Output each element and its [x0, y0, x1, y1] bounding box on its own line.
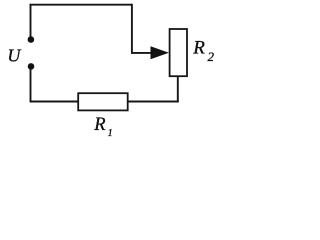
wire right vertical to R2 bottom [177, 76, 179, 102]
wire left vertical upper [30, 4, 32, 37]
wire bottom left horizontal [30, 101, 78, 103]
wire wiper horizontal [131, 52, 153, 54]
resistor R1 [78, 93, 128, 110]
wiper arrow head [151, 46, 169, 59]
wire left vertical lower [30, 69, 32, 102]
svg-text:1: 1 [108, 128, 113, 139]
svg-text:U: U [7, 46, 21, 66]
svg-text:R: R [93, 115, 105, 135]
wire top right vertical drop [131, 4, 133, 53]
node terminal dot upper [28, 36, 35, 43]
wire bottom right horizontal [128, 101, 179, 103]
svg-text:2: 2 [208, 49, 215, 64]
potentiometer R2 [170, 29, 187, 76]
wire top horizontal [30, 4, 132, 6]
svg-text:R: R [192, 38, 205, 59]
node terminal dot lower [28, 63, 35, 70]
